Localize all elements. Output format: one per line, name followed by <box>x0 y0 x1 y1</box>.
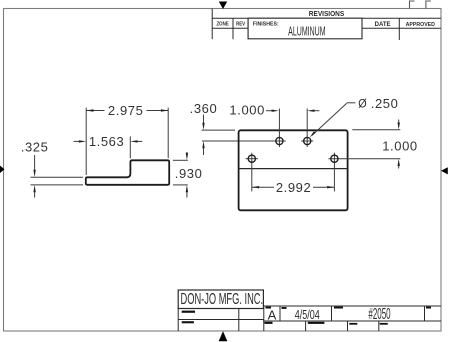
dim 2.992 line left segment <box>252 186 274 188</box>
micro label RELEASE DATE <box>308 322 325 324</box>
row2 divider 3 <box>378 321 380 331</box>
date/approved divider <box>398 18 400 40</box>
hole top-right <box>304 137 311 144</box>
hole4 horizontal centerline + 1.000 right ext <box>328 158 400 160</box>
row2 divider 2 <box>347 321 349 331</box>
arrow .325 up <box>33 185 35 192</box>
dim .360 lower extension line (top holes centerline) <box>202 140 286 142</box>
leader arrowhead at hole2 <box>310 131 316 138</box>
leader line diag <box>312 103 347 135</box>
svg-text:2.975: 2.975 <box>108 103 144 118</box>
arrow 1.000 right down <box>398 123 400 130</box>
dim .930 upper arrow stem <box>186 152 188 154</box>
svg-text:DATE: DATE <box>375 22 391 28</box>
centre marker top <box>219 2 227 10</box>
rev table left line <box>211 9 213 40</box>
dim .325 upper arrow stem <box>34 155 36 171</box>
step line across plate <box>239 168 348 170</box>
hole3 crosshair horizontal <box>246 158 258 160</box>
svg-text:1.000: 1.000 <box>382 138 418 153</box>
left/right block separator <box>263 306 265 331</box>
micro label SCALE <box>265 322 273 324</box>
hole mid-left <box>248 155 255 162</box>
svg-text:REV: REV <box>236 21 246 28</box>
dim .930 lower arrow stem <box>186 192 188 198</box>
dim 2.975 right extension line <box>167 108 169 158</box>
dim 2.992 line right segment <box>313 186 334 188</box>
dim 1.000 top: ext line to hole2 <box>306 109 308 148</box>
dim 1.563 right extension line <box>129 136 131 158</box>
revisions table <box>212 9 441 41</box>
left block mid line <box>178 319 264 321</box>
arrow 1.000 top left <box>272 110 279 112</box>
zone/rev right divider <box>247 18 249 39</box>
dim 1.000 right upper arrow stem <box>398 120 400 124</box>
arrow 2.975 right <box>161 109 168 111</box>
dim 1.000 top left arrow tail <box>266 110 272 112</box>
dim .325 lower arrow stem <box>34 192 36 198</box>
dim 2.975 line left segment <box>86 110 104 112</box>
dim 1.000 top: ext line to hole1 <box>278 109 280 148</box>
micro label SIZE <box>266 307 272 309</box>
title block <box>178 306 441 331</box>
finishes/aluminum box <box>248 18 362 39</box>
centre marker right <box>441 167 448 174</box>
zone/rev bottom line <box>212 27 248 29</box>
svg-text:REVISIONS: REVISIONS <box>309 11 345 18</box>
hole1 horizontal centerline <box>273 140 285 142</box>
micro label checked-by <box>182 321 194 323</box>
dim .325 top extension line <box>31 176 84 178</box>
svg-text:APPROVED: APPROVED <box>406 22 435 28</box>
arrow .360 up <box>202 141 204 148</box>
hole mid-right <box>331 155 338 162</box>
svg-text:DON-JO MFG. INC.: DON-JO MFG. INC. <box>181 289 264 307</box>
dim 1.000 right top ext line <box>352 129 400 131</box>
svg-text:1.563: 1.563 <box>89 134 125 149</box>
svg-text:A: A <box>268 308 277 323</box>
dim .930 bottom extension line <box>173 184 188 186</box>
micro label DATE <box>282 307 287 309</box>
dim 1.563 right arrow tail <box>136 140 143 142</box>
arrow .930 down <box>186 153 188 160</box>
arrow 2.975 left <box>86 109 93 111</box>
dim 2.975 left extension line <box>85 108 87 175</box>
svg-text:Ø: Ø <box>358 98 367 111</box>
svg-text:.250: .250 <box>371 96 399 111</box>
hole3 crosshair vertical + 2.992 ext <box>251 153 253 192</box>
arrow .930 up <box>186 185 188 192</box>
zone/rev divider <box>232 18 234 39</box>
svg-text:.930: .930 <box>175 166 203 181</box>
micro label row2-c4 <box>380 323 388 325</box>
arrow 2.992 right <box>327 186 334 188</box>
dim .325 bottom extension line <box>31 184 84 186</box>
row2 divider 1 <box>305 321 307 331</box>
svg-text:.325: .325 <box>21 140 49 155</box>
svg-text:1.000: 1.000 <box>229 103 265 118</box>
part no cell divider <box>331 306 333 321</box>
top cut-off tab 2 <box>426 1 431 9</box>
title block mid line right section <box>263 320 441 322</box>
svg-text:.360: .360 <box>190 101 218 116</box>
arrow .325 down <box>33 170 35 177</box>
centre marker bottom <box>219 331 228 341</box>
dim .360 top extension line <box>202 129 236 131</box>
top cut-off tab 1 <box>410 1 415 9</box>
svg-text:2.992: 2.992 <box>276 180 312 195</box>
micro label row2-c3 <box>349 323 357 325</box>
arrow 1.000 right up <box>398 159 400 166</box>
svg-text:4/5/04: 4/5/04 <box>295 309 320 323</box>
dim 1.000 right lower arrow stem <box>398 166 400 169</box>
arrow 1.563 left <box>79 140 86 142</box>
dim 1.563 left arrow tail <box>74 140 82 142</box>
arrow .360 down <box>202 123 204 130</box>
dim .930 top extension line <box>173 159 188 161</box>
hole top-left <box>276 137 283 144</box>
micro label drawn-by <box>182 311 195 313</box>
part outline (side profile) <box>86 160 169 185</box>
front plate outline <box>239 130 348 210</box>
size cell divider <box>279 306 281 321</box>
svg-text:#2050: #2050 <box>368 305 390 323</box>
micro label REV <box>426 307 431 309</box>
title block top line right section <box>263 305 441 307</box>
micro label PART NO. <box>334 307 343 309</box>
centre marker left <box>0 166 5 173</box>
arrow 1.563 right <box>130 140 137 142</box>
hole4 crosshair vertical + 2.992 ext <box>333 153 335 192</box>
rev header underline <box>212 17 441 19</box>
left block divider <box>238 309 240 332</box>
arrow 1.000 top right <box>307 110 314 112</box>
dim 1.000 top right arrow tail <box>315 110 320 112</box>
leader tail <box>347 102 356 104</box>
svg-text:FINISHES:: FINISHES: <box>253 21 279 27</box>
svg-text:ALUMINUM: ALUMINUM <box>288 26 325 40</box>
dim 2.975 line right segment <box>147 110 169 112</box>
date/approved bottom line <box>362 27 441 29</box>
rev cell divider <box>424 306 426 321</box>
svg-text:ZONE: ZONE <box>216 21 229 28</box>
dim .360 upper arrow stem <box>203 115 205 124</box>
dim .360 lower arrow stem <box>203 148 205 155</box>
company name box <box>178 290 263 309</box>
hole2 crosshair horizontal <box>301 140 313 142</box>
title block left vertical <box>177 309 179 332</box>
arrow 2.992 left <box>252 186 259 188</box>
